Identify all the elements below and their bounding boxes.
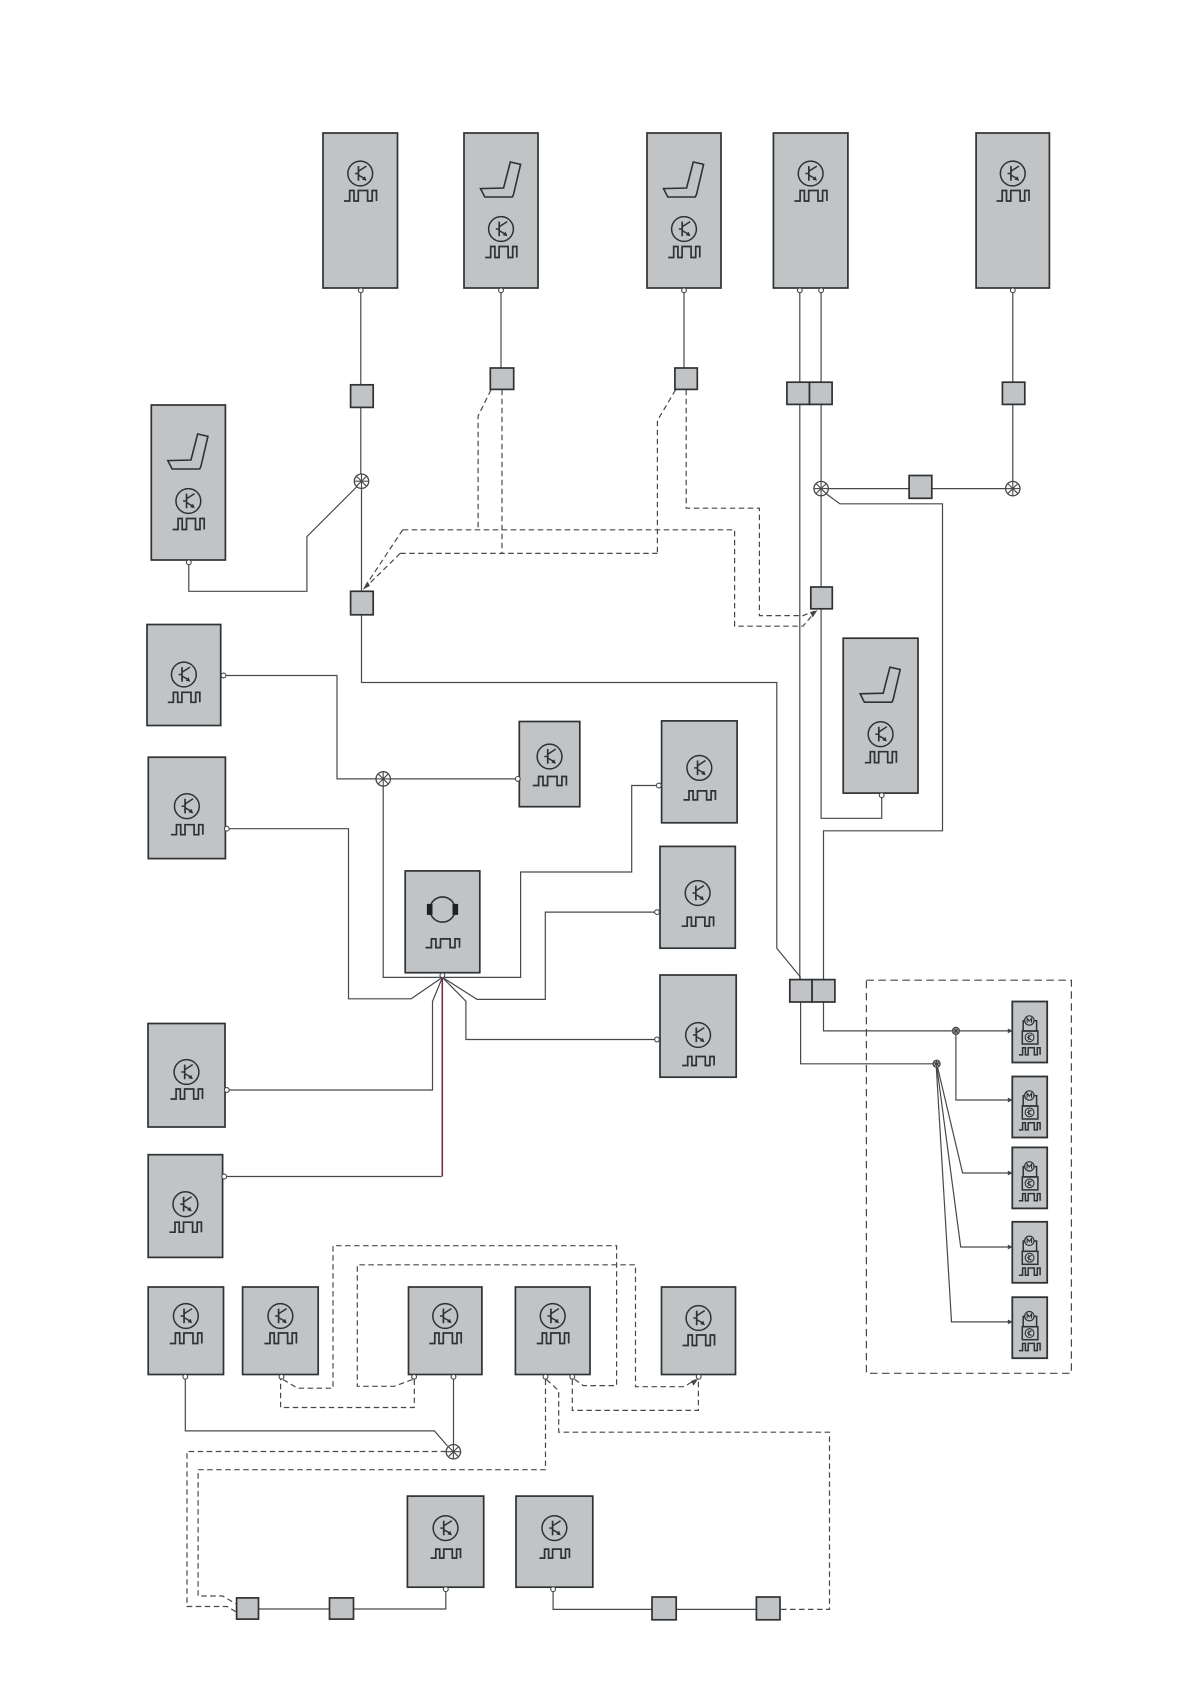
wire: splice SP1 down through connector to junction, across and down to pair connector (left)	[362, 481, 801, 980]
dashed wire: module D pin1 to connector K1 (left drop)	[198, 1380, 545, 1605]
wire: pair connector P2 to splice SP6	[824, 1002, 953, 1031]
wire: connector C5 to splice SP3	[1012, 404, 1014, 481]
terminal R2 left	[655, 910, 660, 915]
dashed harness boundary around seat heater modules	[866, 980, 1071, 1373]
wire: splice SP2 to splice SP3 through connector C7	[828, 488, 1005, 490]
seat motor module M	[405, 871, 480, 973]
arrow into heater module M2	[1008, 1098, 1013, 1103]
wire: motor terminal to module R2	[442, 912, 655, 999]
terminal D pin1	[543, 1374, 548, 1379]
connector C4a (under B4, left)	[787, 382, 810, 404]
terminal B bottom	[279, 1374, 284, 1379]
terminal L1 right	[221, 673, 226, 678]
arrow into connector SQ2	[363, 581, 370, 589]
terminal B3 bottom	[682, 288, 687, 293]
seat heater module M5	[1012, 1297, 1047, 1358]
splice SP6 (small)	[952, 1027, 959, 1034]
control module C (bottom row)	[409, 1287, 482, 1375]
terminal motor bottom	[440, 973, 445, 978]
wire: connector K1 to connector K2	[259, 1608, 330, 1610]
wire: connector K3 to connector K4	[676, 1608, 756, 1610]
connector SQ1 (on B1 wire)	[351, 385, 374, 408]
wire: module F down to connector K2	[354, 1589, 446, 1609]
wire: motor terminal feed (maroon)	[441, 976, 443, 1177]
control module E (bottom row)	[662, 1287, 736, 1375]
control module L4	[148, 1155, 222, 1258]
connector C7 (between splices SP2 and SP3)	[909, 476, 932, 499]
wire: splice SP6 down to heater module M2	[956, 1034, 1011, 1100]
seat control module B3 (top row 3)	[647, 133, 721, 288]
control module R1	[662, 721, 738, 823]
dashed bus H2 arrow into connector SQ2	[366, 553, 400, 586]
control module L1	[147, 625, 221, 726]
seat heater module M4	[1012, 1222, 1047, 1283]
control module R2	[660, 846, 735, 948]
terminal S1 left	[515, 777, 520, 782]
wire: module L2 to motor terminal	[226, 829, 442, 999]
wire: module B5 to connector C5	[1012, 288, 1014, 383]
wire: pair connector P1 to splice SP7	[801, 1002, 934, 1064]
splice SP7 (small)	[933, 1060, 940, 1067]
terminal C pin2	[451, 1374, 456, 1379]
arrow into heater module M1	[1008, 1029, 1013, 1034]
wire: splice SP2 branch down right to pair connector P2	[824, 494, 943, 980]
arrow into heater module M5	[1008, 1320, 1013, 1325]
wire: splice SP7 to heater module M4	[937, 1067, 1011, 1247]
splice SP2	[814, 481, 828, 495]
dashed wire: connector C2 branch a to bus H1	[478, 390, 491, 530]
control module B (bottom row)	[243, 1287, 319, 1375]
wire: splice SP7 to heater module M3	[938, 1067, 1012, 1173]
control module F (lower)	[407, 1496, 483, 1587]
dashed wire: module D pin1 to connector K4 (right drop)	[547, 1380, 830, 1610]
wire: module B4 pin1 to connector C4a	[799, 288, 801, 383]
arrow into module E terminal	[691, 1379, 698, 1386]
dashed wire: connector C3 branch a to bus H2	[657, 390, 675, 554]
seat control module B2 (top row 2)	[464, 133, 538, 288]
dashed wire: splice SP5 to connector K1	[187, 1452, 446, 1613]
control module L2	[148, 757, 225, 858]
control module L3	[148, 1024, 225, 1128]
control module D (bottom row)	[515, 1287, 590, 1375]
splice SP1	[354, 474, 368, 488]
terminal D pin2	[570, 1374, 575, 1379]
wire: module L1 across and down to splice SP4	[222, 676, 376, 779]
splice SP3	[1006, 481, 1020, 495]
terminal C pin1	[412, 1374, 417, 1379]
connector C5 (under B5)	[1002, 382, 1024, 404]
control module G (lower)	[516, 1496, 593, 1587]
wire: splice SP4 down to motor node then to module R1	[383, 786, 658, 978]
wire: module B3 to connector C3	[683, 288, 685, 369]
connector C4b (under B4, right)	[810, 382, 833, 404]
wire: connector C4a down to pair connector P1	[799, 404, 801, 980]
wire: module B2 to connector C2	[500, 288, 502, 369]
connector K4	[756, 1597, 780, 1620]
arrow into connector C8	[810, 610, 818, 617]
connector C2 (under B2)	[490, 368, 513, 389]
connector C8 (arrow target, right)	[811, 587, 833, 609]
connector K3	[652, 1597, 676, 1620]
terminal F bottom	[443, 1587, 448, 1592]
terminal A bottom	[183, 1374, 188, 1379]
wire: module B1 to splice SP1 (vertical)	[360, 288, 362, 481]
terminal B1 bottom	[358, 288, 363, 293]
dashed wire: module B bottom to module D pin2 (over-path)	[283, 1246, 617, 1389]
dashed wire: module C pin1 to module E (over-path)	[357, 1265, 695, 1387]
seat heater module M1	[1012, 1002, 1047, 1063]
control module S1 (small)	[519, 722, 580, 807]
control module B4 (top row 4)	[773, 133, 848, 288]
wire: motor terminal to module R3	[442, 977, 655, 1039]
wire: splice SP7 to heater module M5	[936, 1067, 1011, 1322]
pair connector P2 (right)	[812, 980, 835, 1002]
terminal R1 left	[656, 783, 661, 788]
wire: module A down and across to splice SP5	[185, 1377, 447, 1447]
control module A (bottom row)	[148, 1287, 223, 1375]
wire: splice SP6 to heater module M1	[959, 1030, 1011, 1032]
splice SP4	[376, 772, 390, 786]
terminal B4 pin1	[797, 288, 802, 293]
splice SP5	[446, 1445, 460, 1459]
dashed wire: module C pin1 to module B bottom (under-path)	[281, 1380, 415, 1408]
wire: module B4 pin2 to connector C4b	[820, 288, 822, 383]
wire: splice SP1 diagonal to left seat module	[189, 484, 360, 591]
terminal B4 pin2	[819, 288, 824, 293]
control module B5 (top row 5)	[976, 133, 1049, 288]
control module B1 (top row 1)	[323, 133, 398, 288]
dashed bus H1: to arrow connector C8	[403, 530, 815, 626]
wire: connector C8 down, across and up to right seat module	[821, 609, 882, 819]
terminal B5 bottom	[1010, 288, 1015, 293]
pair connector P1 (left)	[790, 980, 812, 1002]
dashed wire: module D pin2 to module E bottom	[572, 1380, 698, 1411]
arrow into heater module M4	[1008, 1245, 1013, 1250]
connector SQ2 (center, arrow target)	[351, 591, 374, 615]
connector C3 (under B3)	[675, 368, 697, 389]
terminal G bottom	[551, 1587, 556, 1592]
terminal E bottom	[696, 1374, 701, 1379]
terminal L2 right	[224, 826, 229, 831]
wire: connector C4b to splice SP2	[820, 404, 822, 482]
left seat control module	[151, 405, 225, 560]
wire: splice SP4 to module S1	[390, 778, 517, 780]
seat heater module M2	[1012, 1077, 1047, 1138]
control module R3	[660, 975, 736, 1077]
connector K2	[330, 1598, 354, 1619]
connector K1 (bottom left)	[237, 1598, 259, 1619]
terminal left seat module	[186, 560, 191, 565]
arrow into heater module M3	[1008, 1171, 1013, 1176]
dashed bus H1 arrow into connector SQ2	[366, 530, 403, 585]
terminal B2 bottom	[499, 288, 504, 293]
wire: module L4 to maroon feed	[225, 1176, 442, 1178]
dashed wire: connector C3 branch b to arrow connector C8	[686, 390, 814, 616]
terminal right seat module	[879, 793, 884, 798]
wire: module G down to connector K3	[553, 1589, 652, 1609]
dashed bus H2	[400, 552, 657, 554]
wire: module C pin2 to splice SP5	[453, 1377, 455, 1445]
terminal L4 right	[222, 1174, 227, 1179]
terminal L3 right	[224, 1088, 229, 1093]
wire: splice SP2 to arrow connector C8	[820, 496, 822, 588]
dashed wire: connector C2 branch b to bus H2	[501, 390, 503, 554]
seat heater module M3	[1012, 1147, 1047, 1208]
terminal R3 left	[655, 1037, 660, 1042]
right seat control module	[843, 638, 918, 793]
wire: module L3 to motor terminal	[226, 977, 442, 1090]
